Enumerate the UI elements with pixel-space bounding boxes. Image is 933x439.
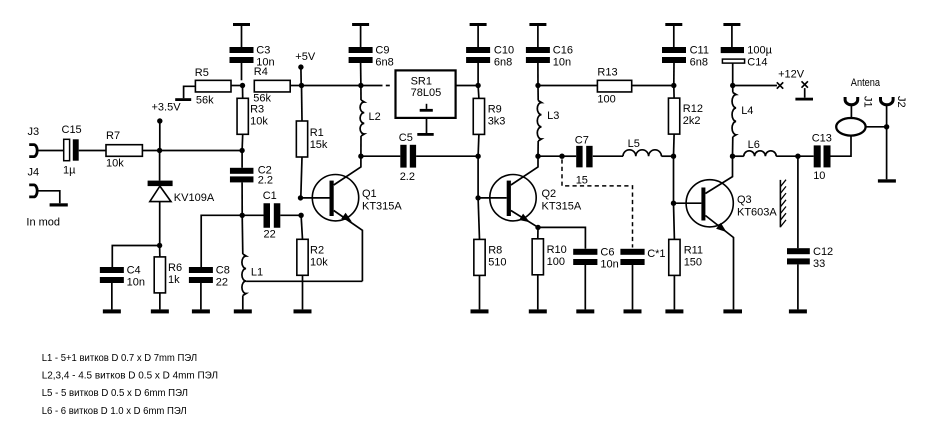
- capacitor C*1 (select): [620, 248, 665, 265]
- ground (C11 top): [665, 23, 682, 26]
- svg-text:100: 100: [547, 256, 565, 268]
- node R (R12/L5/Q3 base column): [671, 154, 676, 159]
- inductor L4: [732, 86, 753, 157]
- svg-text:56k: 56k: [253, 93, 271, 105]
- svg-text:R8: R8: [488, 244, 502, 256]
- svg-text:R11: R11: [684, 244, 703, 256]
- svg-text:C8: C8: [216, 264, 230, 276]
- ground (C8): [200, 283, 202, 309]
- resistor R6 (1k): [154, 246, 182, 293]
- wire SR1 to node K: [456, 85, 479, 87]
- svg-text:R4: R4: [254, 66, 268, 78]
- ground (supply return): [795, 81, 813, 100]
- svg-text:R5: R5: [195, 67, 209, 79]
- ground (R5 left): [175, 86, 195, 101]
- svg-text:78L05: 78L05: [411, 87, 442, 99]
- resistor R4 (56k): [253, 66, 290, 104]
- svg-text:+3.5V: +3.5V: [152, 102, 182, 114]
- svg-text:L6 - 6 витков D 1.0 x D 6mm: L6 - 6 витков D 1.0 x D 6mm ПЭЛ: [42, 405, 187, 417]
- ground (R2): [302, 275, 304, 309]
- svg-text:100µ: 100µ: [747, 45, 772, 57]
- wire node V to L6: [733, 155, 744, 157]
- transistor Q3 KT603A: [674, 156, 778, 309]
- wire rail C16 to R13: [538, 85, 597, 87]
- capacitor C4 (10n): [100, 264, 145, 288]
- capacitor C5 (2.2): [399, 132, 416, 183]
- svg-text:10k: 10k: [106, 157, 124, 169]
- svg-text:C15: C15: [62, 124, 82, 136]
- svg-text:KV109A: KV109A: [174, 192, 215, 204]
- wire C15 to R7: [79, 150, 106, 152]
- svg-text:2k2: 2k2: [683, 115, 701, 127]
- inductor L2: [360, 86, 381, 157]
- svg-text:56k: 56k: [196, 94, 214, 106]
- svg-text:6n8: 6n8: [690, 56, 708, 68]
- svg-text:10k: 10k: [250, 115, 268, 127]
- power +3.5V: [152, 102, 182, 151]
- svg-text:33: 33: [813, 258, 825, 270]
- svg-text:Antena: Antena: [851, 77, 881, 89]
- ground (SR1): [417, 118, 433, 136]
- svg-text:J2: J2: [895, 96, 907, 108]
- resistor R11 (150): [669, 203, 703, 275]
- svg-text:100: 100: [597, 94, 615, 106]
- svg-text:C14: C14: [747, 56, 767, 68]
- svg-text:1µ: 1µ: [63, 164, 76, 176]
- node C (R5/R4/C3/R3): [240, 83, 245, 88]
- svg-text:10n: 10n: [600, 259, 618, 271]
- svg-text:22: 22: [264, 228, 276, 240]
- svg-text:R2: R2: [310, 244, 324, 256]
- svg-text:KT315A: KT315A: [542, 201, 582, 213]
- ground (L1): [242, 296, 244, 310]
- svg-text:L5: L5: [628, 138, 640, 150]
- svg-text:C3: C3: [256, 45, 270, 57]
- connector J3: [28, 126, 40, 156]
- svg-text:L3: L3: [547, 110, 559, 122]
- resistor R3 (10k): [237, 86, 268, 151]
- ground (J2): [878, 179, 896, 182]
- dashed link C7 node to C*1: [562, 159, 633, 247]
- svg-text:2.2: 2.2: [258, 174, 273, 186]
- capacitor C12 (33): [787, 156, 833, 270]
- svg-text:R3: R3: [250, 103, 264, 115]
- ground (J4): [50, 203, 68, 206]
- wire R13 to node S: [632, 85, 674, 87]
- wire R7 to node A: [142, 150, 159, 152]
- wire node J to C5: [361, 155, 400, 157]
- node E (C2/R3 junction): [239, 148, 244, 153]
- node V (L4/L6/Q3 collector): [730, 154, 735, 159]
- capacitor C3 (10n): [230, 45, 275, 81]
- svg-text:R12: R12: [683, 103, 703, 115]
- svg-text:1k: 1k: [168, 274, 180, 286]
- inductor L3: [537, 86, 559, 157]
- svg-text:R9: R9: [488, 103, 502, 115]
- svg-text:C7: C7: [575, 135, 589, 147]
- wire R5 to node C: [231, 85, 243, 87]
- resistor R5 (56k): [195, 67, 231, 107]
- ground (Q3 emitter): [723, 309, 742, 313]
- svg-text:Q3: Q3: [737, 194, 752, 206]
- wire node F to C8: [201, 215, 242, 267]
- svg-text:6n8: 6n8: [375, 56, 393, 68]
- capacitor C9 (6n8): [349, 45, 394, 86]
- svg-text:+5V: +5V: [295, 51, 316, 63]
- wire rail +5V to C9/L2: [302, 85, 361, 87]
- node W (L6/C13/C12): [795, 154, 800, 159]
- node A (R7/varicap junction): [157, 148, 162, 153]
- power +12V: [777, 69, 805, 89]
- wire node L down to Q2 base: [477, 156, 479, 198]
- wire node A to C2 column: [160, 150, 243, 152]
- svg-text:C1: C1: [263, 190, 277, 202]
- capacitor C11 (6n8): [662, 45, 709, 86]
- connector J4: [28, 167, 40, 197]
- node L (R9/C5/Q2 base column): [475, 154, 480, 159]
- svg-text:C6: C6: [600, 247, 614, 259]
- wire J3 to C15: [37, 150, 64, 152]
- svg-text:C16: C16: [553, 45, 573, 57]
- node S (C11/R12 rail junction): [671, 83, 676, 88]
- svg-text:L6: L6: [748, 139, 760, 151]
- svg-text:R13: R13: [597, 67, 617, 79]
- ground (R6): [159, 293, 161, 310]
- node X (J2 column): [884, 124, 889, 129]
- svg-text:L5 - 5 витков D 0.5 x D 6mm: L5 - 5 витков D 0.5 x D 6mm ПЭЛ: [42, 387, 188, 399]
- svg-text:3k3: 3k3: [488, 115, 506, 127]
- node O (C16/L3 rail junction): [535, 83, 540, 88]
- svg-text:6n8: 6n8: [494, 56, 512, 68]
- node P (L3/Q2 collector): [535, 154, 540, 159]
- svg-text:L1: L1: [251, 267, 263, 279]
- resistor R1 (15k): [296, 86, 328, 198]
- ground (R10): [537, 275, 539, 310]
- svg-text:L4: L4: [741, 105, 753, 117]
- svg-text:L2: L2: [369, 111, 381, 123]
- ground (C10 top): [470, 23, 487, 26]
- wire J1 to lamp: [850, 104, 852, 118]
- wire L6 to node W: [776, 155, 798, 157]
- wire node R down to Q3 base: [673, 156, 675, 203]
- svg-text:C10: C10: [494, 45, 514, 57]
- svg-text:C12: C12: [813, 246, 833, 258]
- svg-text:Q2: Q2: [542, 188, 557, 200]
- wire node P to node Q: [538, 155, 562, 157]
- svg-text:R10: R10: [547, 244, 567, 256]
- svg-text:15: 15: [576, 175, 588, 187]
- svg-text:10: 10: [813, 170, 825, 182]
- wire R4 to +5V node: [290, 85, 301, 87]
- node N (Q2 emitter): [535, 225, 540, 230]
- svg-text:J1: J1: [861, 96, 873, 108]
- svg-text:C13: C13: [812, 133, 832, 145]
- capacitor C10 (6n8): [466, 45, 514, 86]
- node J (L2/Q1 collector/C5): [358, 154, 363, 159]
- node B (varicap/R6/C4 junction): [157, 243, 162, 248]
- ground (C4): [111, 283, 113, 309]
- svg-text:R6: R6: [168, 262, 182, 274]
- svg-text:Q1: Q1: [362, 188, 377, 200]
- svg-text:SR1: SR1: [411, 75, 432, 87]
- ground (C16 top): [529, 23, 546, 26]
- lamp/fuse symbol: [836, 118, 865, 136]
- inductor L1: [242, 215, 263, 295]
- connector J1: [845, 96, 873, 108]
- resistor R7 (10k): [106, 130, 142, 169]
- wire J4 to ground: [37, 191, 60, 204]
- wire L1 tap to Q1 emitter: [246, 280, 362, 282]
- svg-text:In mod: In mod: [26, 217, 60, 229]
- capacitor C16 (10n): [526, 45, 573, 86]
- resistor R13 (100): [597, 67, 631, 106]
- svg-text:15k: 15k: [310, 139, 328, 151]
- svg-text:KT603A: KT603A: [737, 207, 777, 219]
- svg-text:J3: J3: [28, 126, 40, 138]
- svg-text:10n: 10n: [553, 56, 571, 68]
- ground (C14 top): [723, 23, 740, 26]
- svg-text:L2,3,4 - 4.5 витков D 0.5 x: L2,3,4 - 4.5 витков D 0.5 x D 4mm ПЭЛ: [42, 369, 218, 381]
- wire J2 to ground: [886, 104, 888, 179]
- capacitor C13 (10): [798, 133, 832, 183]
- wire rail to +12V: [733, 85, 777, 87]
- wire node B to C4: [112, 246, 159, 268]
- voltage regulator SR1 78L05: [396, 70, 456, 118]
- svg-text:10n: 10n: [127, 276, 145, 288]
- resistor R2 (10k): [297, 215, 328, 275]
- ground (R11): [673, 275, 675, 309]
- svg-text:+12V: +12V: [778, 69, 805, 81]
- inductor L5: [623, 138, 661, 156]
- node I (C9/L2 rail junction): [358, 83, 363, 88]
- capacitor C8 (22): [189, 264, 230, 288]
- ground (R8): [479, 275, 481, 309]
- svg-text:150: 150: [684, 256, 702, 268]
- resistor R8 (510): [474, 198, 507, 276]
- svg-text:C*1: C*1: [647, 248, 665, 260]
- svg-text:2.2: 2.2: [400, 171, 415, 183]
- capacitor C15 (1µ electrolytic): [62, 124, 82, 176]
- svg-text:R1: R1: [310, 127, 324, 139]
- svg-text:KT315A: KT315A: [362, 201, 402, 213]
- node D (+5V rail junction): [299, 83, 304, 88]
- resistor R9 (3k3): [473, 86, 505, 157]
- capacitor C14 (100µ electrolytic): [721, 45, 773, 86]
- connector J2: [881, 96, 907, 108]
- resistor R10 (100): [532, 227, 567, 274]
- node T (Q3 base): [671, 201, 676, 206]
- heatsink shield (Q3): [780, 180, 786, 228]
- svg-text:22: 22: [216, 276, 228, 288]
- varicap diode KV109A: [148, 151, 215, 246]
- capacitor C6 (10n): [573, 247, 619, 271]
- wire rail to SR1: [361, 85, 390, 87]
- node F (C2/C1/C8/L1 junction): [240, 213, 245, 218]
- svg-text:510: 510: [488, 256, 506, 268]
- ground (C3 top): [233, 23, 250, 26]
- wire C5 to node L: [416, 155, 478, 157]
- ground (C9 top): [352, 23, 369, 26]
- wire C7 to L5: [593, 155, 623, 157]
- capacitor C1 (22): [242, 190, 301, 240]
- resistor R12 (2k2): [668, 86, 703, 157]
- node M (Q2 base): [475, 195, 480, 200]
- svg-text:C4: C4: [127, 264, 141, 276]
- ground (C*1): [632, 265, 634, 309]
- transistor Q2 KT315A: [478, 156, 582, 227]
- svg-text:C9: C9: [375, 45, 389, 57]
- wire L5 to node R: [661, 155, 673, 157]
- wire node Q to C7: [562, 155, 576, 157]
- node U (C14/L4 rail junction): [730, 83, 735, 88]
- svg-text:R7: R7: [106, 130, 120, 142]
- svg-text:C5: C5: [399, 132, 413, 144]
- svg-text:L1 - 5+1 витков D 0.7 x D 7mm: L1 - 5+1 витков D 0.7 x D 7mm ПЭЛ: [42, 352, 197, 364]
- node H (C1/R2 junction): [298, 213, 303, 218]
- node Q (C7 junction): [559, 154, 564, 159]
- svg-text:10k: 10k: [310, 256, 328, 268]
- wire lamp to J2 column: [866, 126, 887, 128]
- capacitor C7 (15): [575, 135, 593, 187]
- svg-text:C11: C11: [690, 45, 709, 57]
- wire C13 to lamp: [831, 135, 852, 156]
- node K (C10 rail junction): [475, 83, 480, 88]
- svg-text:J4: J4: [28, 167, 40, 179]
- wire Q2 emitter to C6: [538, 227, 585, 248]
- power +5V: [295, 51, 316, 85]
- ground (C12): [797, 264, 799, 309]
- transistor Q1 KT315A: [301, 156, 403, 281]
- ground (C6): [584, 265, 586, 309]
- inductor L6: [744, 139, 776, 156]
- node G (Q1 base): [298, 195, 303, 200]
- capacitor C2 (2.2): [230, 151, 273, 216]
